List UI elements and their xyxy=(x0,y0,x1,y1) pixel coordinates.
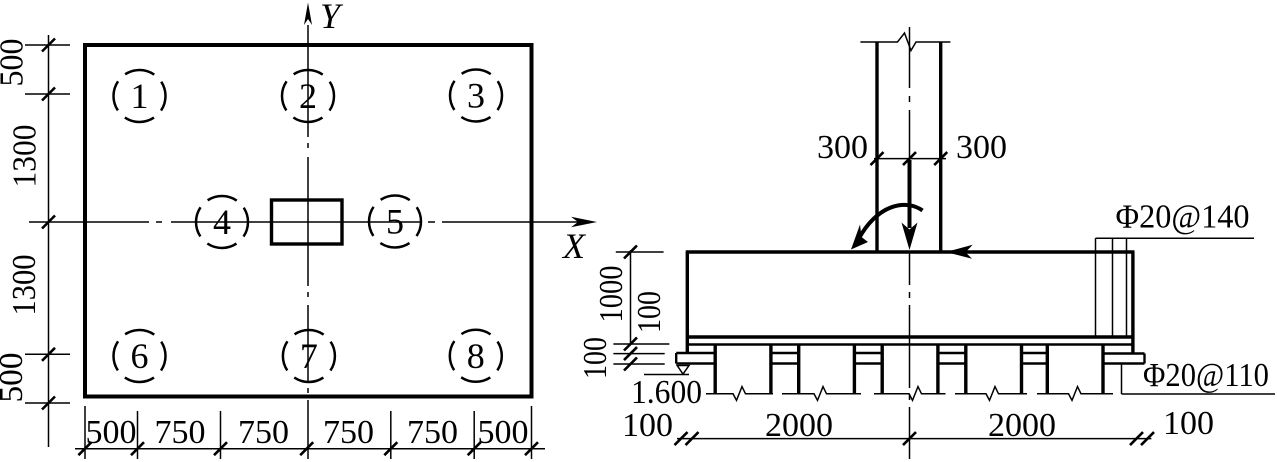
column footprint rectangle (plan) xyxy=(272,200,343,244)
pile circle 1 xyxy=(114,70,166,122)
left dimension line (plan) xyxy=(25,35,70,447)
pile cap outline (plan) xyxy=(85,45,532,397)
cap left edge xyxy=(686,252,689,353)
svg-text:750: 750 xyxy=(323,414,374,451)
pile circle 2 xyxy=(282,70,334,122)
axial force arrow N xyxy=(908,160,912,228)
svg-text:Φ20@140: Φ20@140 xyxy=(1116,199,1250,236)
column right edge xyxy=(939,42,942,252)
cushion segment 2 xyxy=(854,352,882,354)
pile cap (section): top line xyxy=(686,250,1135,253)
svg-text:100: 100 xyxy=(1163,405,1214,442)
Y axis centerline xyxy=(307,25,309,459)
pile circle 8 xyxy=(450,330,502,382)
pile circle 7 xyxy=(283,330,335,382)
svg-text:2: 2 xyxy=(299,76,317,116)
pile 4 xyxy=(966,345,1022,394)
svg-text:X: X xyxy=(561,226,587,266)
svg-text:500: 500 xyxy=(0,353,30,403)
svg-text:7: 7 xyxy=(300,336,318,376)
svg-text:5: 5 xyxy=(386,202,404,242)
pile circle 3 xyxy=(450,70,502,122)
column left edge xyxy=(875,42,878,252)
svg-text:1300: 1300 xyxy=(7,125,44,188)
svg-text:Φ20@110: Φ20@110 xyxy=(1143,357,1269,394)
pile circle 4 xyxy=(196,196,248,248)
pile 2 xyxy=(799,345,855,394)
svg-text:500: 500 xyxy=(86,414,137,451)
Y axis arrowhead xyxy=(304,3,312,26)
cap bottom line xyxy=(687,335,1133,338)
left dimension (section) xyxy=(613,250,669,364)
svg-text:2000: 2000 xyxy=(988,407,1056,444)
pile circle 5 xyxy=(369,196,421,248)
svg-text:300: 300 xyxy=(956,129,1007,166)
svg-text:100: 100 xyxy=(577,337,614,379)
svg-text:8: 8 xyxy=(467,336,485,376)
pile 5 xyxy=(1047,345,1103,394)
bottom dim ticks xyxy=(78,442,538,455)
X axis arrowhead xyxy=(571,217,597,227)
svg-text:1: 1 xyxy=(131,76,149,116)
svg-text:100: 100 xyxy=(622,407,673,444)
elevation marker 1.600 xyxy=(644,374,689,376)
shear arrow V xyxy=(946,245,973,259)
svg-text:1300: 1300 xyxy=(6,255,43,316)
cushion segment 3 xyxy=(938,352,966,354)
svg-text:100: 100 xyxy=(631,291,668,333)
300/300 dimension line xyxy=(874,158,946,160)
moment arc arrow M xyxy=(859,205,923,239)
rebar label leader (bottom) xyxy=(1122,364,1276,395)
bottom dimension (section) xyxy=(677,438,1151,440)
svg-text:4: 4 xyxy=(213,202,231,242)
top rebar bars (right end of cap) xyxy=(1096,238,1127,338)
cushion left end block xyxy=(676,352,715,354)
svg-text:500: 500 xyxy=(0,39,31,87)
svg-text:6: 6 xyxy=(131,336,149,376)
cushion right end block xyxy=(1103,352,1145,354)
svg-text:300: 300 xyxy=(817,129,868,166)
cushion segment 4 xyxy=(1022,352,1048,354)
cushion segment 1 xyxy=(771,352,799,354)
svg-text:2000: 2000 xyxy=(765,407,833,444)
pile 1 xyxy=(715,345,771,394)
column centerline xyxy=(909,27,911,459)
pile 3 xyxy=(882,345,938,394)
svg-text:500: 500 xyxy=(478,414,529,451)
cap second bottom line xyxy=(687,343,1133,345)
column top break line with zigzag xyxy=(860,33,950,51)
pile circle 6 xyxy=(114,330,166,382)
rebar label leader (top) xyxy=(1096,237,1255,239)
cushion layer segments xyxy=(676,353,1144,364)
svg-text:750: 750 xyxy=(407,414,458,451)
X axis centerline xyxy=(29,221,586,223)
svg-text:750: 750 xyxy=(238,414,289,451)
cap right edge xyxy=(1131,252,1134,353)
bottom dimension line (plan) xyxy=(75,406,545,459)
left dim ticks xyxy=(42,39,55,410)
svg-text:1.600: 1.600 xyxy=(631,374,702,411)
svg-text:3: 3 xyxy=(467,76,485,116)
svg-text:1000: 1000 xyxy=(593,266,630,323)
svg-text:750: 750 xyxy=(155,414,206,451)
